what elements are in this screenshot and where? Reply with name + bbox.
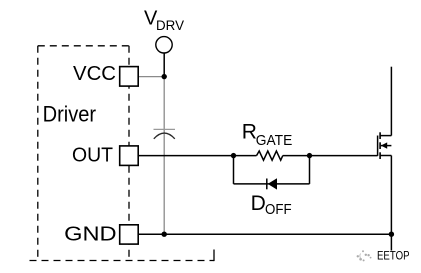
svg-text:R: R (242, 121, 257, 144)
svg-text:OFF: OFF (265, 202, 292, 218)
svg-text:EETOP: EETOP (377, 251, 410, 263)
svg-text:GND: GND (64, 224, 117, 246)
svg-text:GATE: GATE (256, 133, 293, 149)
svg-text:VCC: VCC (73, 63, 116, 85)
svg-text:D: D (251, 192, 266, 215)
svg-text:DRV: DRV (156, 18, 184, 33)
svg-text:Driver: Driver (43, 102, 97, 127)
svg-text:OUT: OUT (72, 145, 113, 167)
